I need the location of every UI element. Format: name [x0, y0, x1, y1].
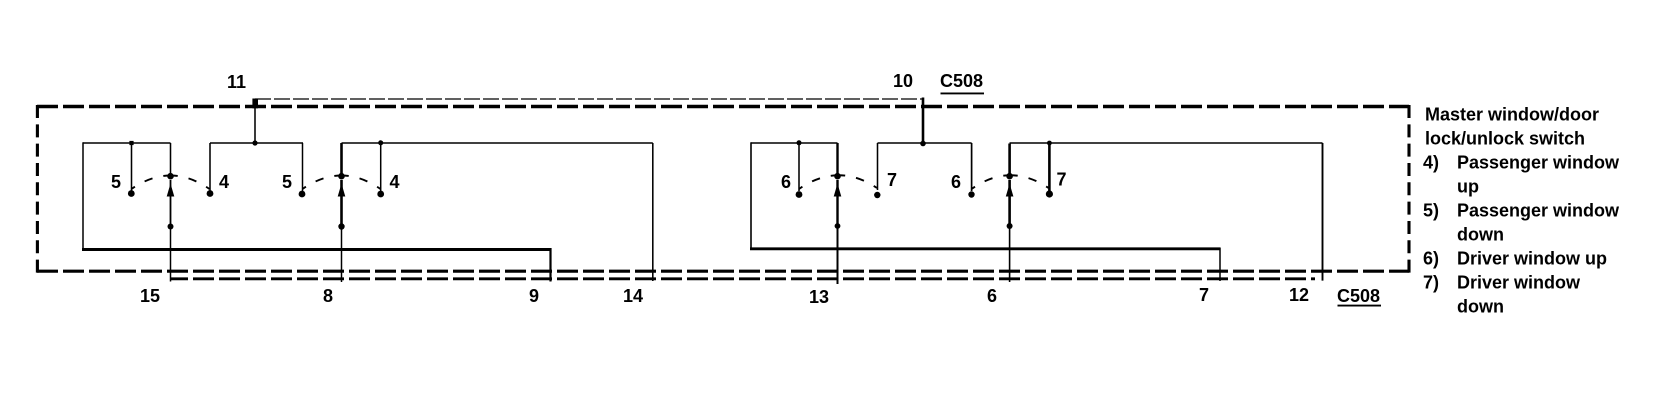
switch S2 contact 5 dot: [299, 191, 306, 198]
svg-text:6: 6: [781, 172, 791, 192]
node 11 junction: [252, 140, 257, 145]
wire right group top C: [751, 142, 838, 144]
switch S2 arc: [303, 176, 381, 190]
switch S3 contact 6 top junction: [797, 140, 802, 145]
wire right group top E: [1010, 142, 1323, 144]
connector C508 lower dashed band: [171, 277, 1315, 280]
wire left group bus: [82, 248, 551, 251]
switch S1 pole mid: [170, 180, 172, 226]
wire left group left edge: [82, 142, 84, 249]
switch S4 pole top: [1008, 144, 1011, 177]
switch S2 pole dot: [338, 223, 344, 229]
svg-text:13: 13: [809, 287, 829, 307]
svg-text:8: 8: [323, 286, 333, 306]
svg-text:7: 7: [1057, 170, 1067, 190]
node 10 junction: [920, 141, 926, 147]
svg-text:5): 5): [1423, 201, 1439, 221]
switch S2 contact 4 dot: [377, 191, 384, 198]
dashed component box bottom border: [37, 270, 1409, 273]
switch S1 wiper arrow: [167, 184, 175, 197]
underline C508 bottom: [1338, 305, 1382, 307]
svg-text:C508: C508: [940, 71, 983, 91]
switch S1 contact 5 top junction: [129, 141, 133, 145]
wire pin 13 stub: [837, 226, 839, 284]
wire pin 6 stub: [1009, 226, 1011, 282]
switch S1 contact 5 drop: [131, 143, 133, 191]
switch S4 contact 6 drop: [971, 143, 973, 191]
switch S1 pole dot: [168, 224, 174, 230]
svg-text:down: down: [1457, 225, 1504, 245]
svg-text:11: 11: [227, 72, 246, 92]
switch S4 contact 7 dot: [1046, 190, 1053, 197]
switch S2 apex dot: [338, 173, 345, 180]
wire pin 15 stub: [170, 226, 172, 282]
svg-text:10: 10: [893, 71, 913, 91]
svg-text:Master window/door: Master window/door: [1425, 105, 1599, 125]
switch S4 contact 6 dot: [968, 191, 974, 197]
switch S2 contact 5 drop: [302, 143, 304, 191]
svg-text:6: 6: [951, 172, 961, 192]
wire pin 7 stub: [1219, 248, 1221, 282]
switch S3 pole mid: [836, 180, 838, 226]
svg-text:Driver window up: Driver window up: [1457, 249, 1607, 269]
switch S2 pole top: [340, 143, 343, 176]
switch S2 wiper arrow: [338, 184, 346, 197]
svg-text:14: 14: [623, 286, 643, 306]
wire pin 12 edge: [1322, 143, 1324, 281]
svg-text:7: 7: [887, 170, 897, 190]
switch S2 contact 4 drop: [380, 143, 382, 192]
svg-text:5: 5: [111, 172, 121, 192]
svg-text:C508: C508: [1337, 286, 1380, 306]
svg-text:4: 4: [390, 172, 400, 192]
switch S1 contact 5 dot: [128, 190, 135, 197]
wire pin 11 drop: [254, 99, 256, 143]
switch S4 contact 7 drop: [1048, 143, 1051, 191]
wire pin 9 stub: [549, 248, 551, 282]
svg-text:4: 4: [219, 172, 229, 192]
svg-text:up: up: [1457, 177, 1479, 197]
wire right group bus: [750, 247, 1220, 250]
switch S1 apex dot: [167, 173, 174, 180]
wire right group left edge: [750, 142, 752, 249]
svg-text:12: 12: [1289, 285, 1309, 305]
switch S3 arc: [799, 175, 877, 189]
switch S3 apex dot: [834, 173, 841, 180]
component name text block: [1423, 105, 1620, 317]
switch S4 apex dot: [1006, 173, 1013, 180]
svg-text:6: 6: [987, 286, 997, 306]
wire left group top B: [342, 142, 653, 144]
switch S2 contact 4 top junction: [378, 140, 383, 145]
wire left group top A: [83, 142, 171, 144]
switch S2 pole mid: [340, 180, 343, 226]
switch S3 wiper arrow: [834, 184, 842, 197]
svg-text:down: down: [1457, 297, 1504, 317]
switch S4 arc: [972, 175, 1049, 189]
switch S1 contact 4 drop: [209, 143, 211, 191]
switch S1 arc: [132, 176, 210, 190]
wire node 11 top: [210, 142, 303, 144]
svg-text:7): 7): [1423, 273, 1439, 293]
svg-text:6): 6): [1423, 249, 1439, 269]
wire pin 8 stub: [341, 226, 343, 282]
switch S4 pole mid: [1008, 180, 1011, 226]
dashed component box right border: [1407, 105, 1410, 273]
switch S4 wiper arrow: [1006, 184, 1014, 197]
dashed component box top border: [37, 105, 1409, 108]
switch S3 contact 7 drop: [877, 143, 879, 190]
switch S4 pole dot: [1007, 223, 1013, 229]
wire pin 10 drop: [922, 98, 925, 144]
switch S4 contact 7 top junction: [1047, 141, 1052, 146]
svg-text:7: 7: [1199, 285, 1209, 305]
switch S3 contact 7 dot: [874, 192, 880, 198]
switch S3 pole top: [836, 143, 838, 176]
underline C508 top: [941, 92, 985, 94]
dashed component box left border: [36, 105, 39, 273]
svg-text:Passenger window: Passenger window: [1457, 201, 1620, 221]
switch S3 contact 6 drop: [798, 143, 800, 192]
svg-text:lock/unlock switch: lock/unlock switch: [1425, 129, 1585, 149]
svg-text:15: 15: [140, 286, 160, 306]
wire pin 14 edge: [652, 143, 654, 281]
switch S1 pole top: [170, 143, 172, 176]
svg-text:5: 5: [282, 172, 292, 192]
svg-text:9: 9: [529, 286, 539, 306]
switch S3 pole dot: [835, 223, 841, 229]
terminal marker at border pin 11: [252, 99, 258, 109]
wire right group top D: [878, 142, 972, 144]
switch S3 contact 6 dot: [796, 191, 803, 198]
wire link node 11 to node 10: [255, 98, 923, 100]
switch S1 contact 4 dot: [207, 190, 214, 197]
svg-text:Passenger window: Passenger window: [1457, 153, 1620, 173]
svg-text:Driver window: Driver window: [1457, 273, 1581, 293]
svg-text:4): 4): [1423, 153, 1439, 173]
